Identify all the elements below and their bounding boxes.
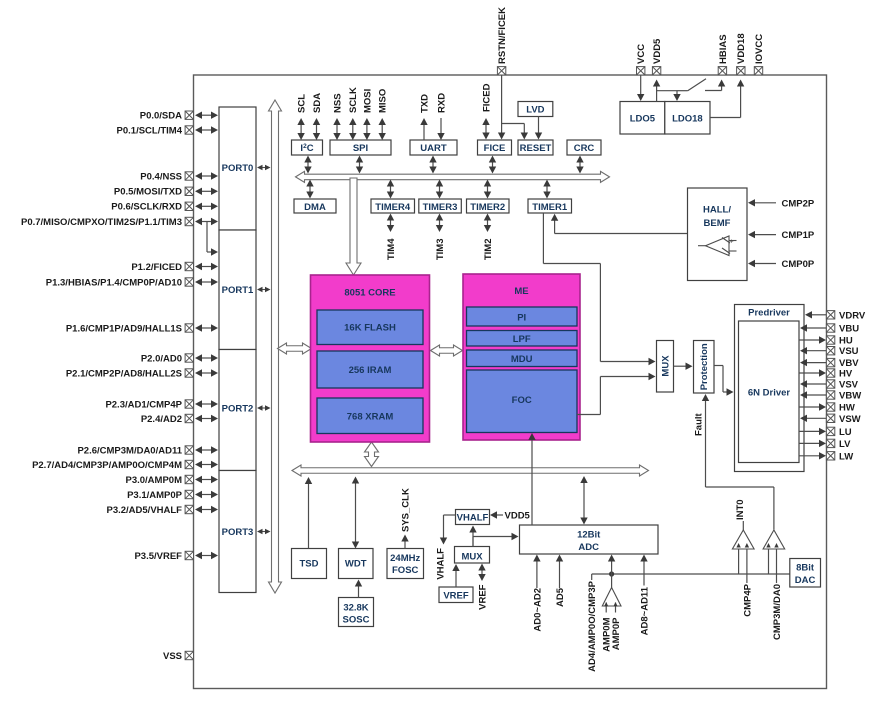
wire LDO5 to VDD5	[656, 85, 658, 101]
svg-text:HW: HW	[839, 403, 855, 414]
wire PORT0 to bus	[261, 167, 266, 169]
block RESET	[518, 140, 553, 155]
signal TIM3	[439, 219, 441, 226]
svg-text:PORT1: PORT1	[222, 285, 254, 296]
block Predriver	[735, 305, 805, 472]
comparator Fault (CMP3M)	[763, 530, 785, 549]
svg-text:P0.1/SCL/TIM4: P0.1/SCL/TIM4	[117, 125, 183, 136]
signal SYS_CLK	[404, 540, 406, 548]
vertical port bus	[269, 100, 282, 593]
svg-text:MDU: MDU	[511, 354, 533, 365]
signal VREF pin	[481, 569, 483, 575]
signal CMP1P	[754, 234, 776, 236]
pin VSU	[826, 347, 834, 355]
block 8Bit DAC	[790, 559, 821, 588]
svg-text:SYS_CLK: SYS_CLK	[400, 488, 411, 532]
svg-text:TIM2: TIM2	[483, 239, 494, 261]
svg-text:768 XRAM: 768 XRAM	[347, 412, 394, 423]
signal VDD5 to VHALF	[496, 514, 503, 516]
wire bus to TIMER2	[487, 185, 489, 193]
svg-text:I2C: I2C	[300, 143, 313, 154]
svg-text:PORT2: PORT2	[222, 404, 254, 415]
svg-text:8051 CORE: 8051 CORE	[344, 288, 395, 299]
block HALL/BEMF	[688, 188, 748, 281]
svg-text:LU: LU	[839, 427, 852, 438]
svg-text:16K FLASH: 16K FLASH	[344, 323, 396, 334]
svg-text:HBIAS: HBIAS	[718, 34, 729, 64]
block ME	[463, 274, 580, 440]
svg-text:MISO: MISO	[378, 89, 389, 113]
svg-text:LV: LV	[839, 439, 851, 450]
svg-text:AMP0P: AMP0P	[611, 617, 622, 650]
svg-text:+: +	[729, 239, 733, 246]
bus to 8051 core top arrow	[346, 178, 361, 275]
svg-text:12Bit: 12Bit	[577, 530, 601, 541]
svg-text:RXD: RXD	[436, 93, 447, 113]
signal Fault	[705, 400, 707, 487]
svg-text:CMP1P: CMP1P	[782, 230, 815, 241]
svg-text:AD8~AD11: AD8~AD11	[639, 586, 650, 635]
block 16K FLASH	[317, 310, 423, 345]
svg-text:VSS: VSS	[163, 651, 182, 662]
wire RSTN to RESET	[502, 123, 525, 125]
wire MUX to VHALF	[472, 531, 474, 546]
svg-text:P0.0/SDA: P0.0/SDA	[140, 111, 182, 122]
svg-text:TIMER1: TIMER1	[532, 202, 568, 213]
comparator symbol in HALL/BEMF	[698, 236, 737, 256]
svg-text:CMP0P: CMP0P	[782, 259, 815, 270]
svg-text:TIM3: TIM3	[435, 239, 446, 261]
pin LV	[826, 439, 834, 447]
svg-text:PI: PI	[517, 313, 526, 324]
svg-text:P2.3/AD1/CMP4P: P2.3/AD1/CMP4P	[105, 399, 182, 410]
svg-text:P2.1/CMP2P/AD8/HALL2S: P2.1/CMP2P/AD8/HALL2S	[66, 368, 182, 379]
svg-text:TIMER4: TIMER4	[375, 202, 411, 213]
wire bus to TIMER3	[439, 185, 441, 193]
svg-text:Fault: Fault	[694, 412, 705, 436]
svg-text:MUX: MUX	[661, 355, 672, 377]
svg-text:VBV: VBV	[839, 358, 859, 369]
svg-text:IOVCC: IOVCC	[754, 34, 765, 64]
svg-text:P2.4/AD2: P2.4/AD2	[141, 414, 182, 425]
svg-text:256 IRAM: 256 IRAM	[349, 365, 392, 376]
comparator INT0 (CMP4P)	[732, 530, 754, 549]
8051 core to ME arrow	[431, 345, 463, 356]
wire VDD5 branch to LDO18	[657, 90, 677, 92]
svg-text:SOSC: SOSC	[343, 615, 370, 626]
svg-text:Protection: Protection	[699, 343, 710, 390]
svg-text:HV: HV	[839, 369, 853, 380]
block 24MHz FOSC	[387, 549, 424, 579]
block FOC	[467, 370, 578, 433]
svg-text:P3.2/AD5/VHALF: P3.2/AD5/VHALF	[107, 505, 183, 516]
wire TIMER1 to MUX	[542, 213, 544, 264]
pin HU	[826, 336, 834, 344]
svg-text:P3.5/VREF: P3.5/VREF	[134, 551, 182, 562]
svg-text:HU: HU	[839, 336, 853, 347]
pin VBV	[826, 358, 834, 366]
svg-text:RSTN/FICEK: RSTN/FICEK	[497, 7, 508, 64]
bus to 8051 core arrow	[278, 343, 312, 354]
wire LDO18 to VDD18	[710, 117, 741, 119]
block MDU	[467, 350, 578, 367]
svg-text:TSD: TSD	[300, 559, 319, 570]
signal TIM2	[487, 219, 489, 226]
svg-text:VCC: VCC	[636, 44, 647, 64]
pin VDRV	[826, 311, 834, 319]
svg-text:P0.6/SCLK/RXD: P0.6/SCLK/RXD	[111, 202, 182, 213]
svg-text:CMP3M/DA0: CMP3M/DA0	[772, 584, 783, 640]
svg-text:VHALF: VHALF	[436, 548, 447, 580]
pin VBW	[826, 391, 834, 399]
svg-text:AD0~AD2: AD0~AD2	[532, 588, 543, 632]
svg-text:P2.7/AD4/CMP3P/AMP0O/CMP4M: P2.7/AD4/CMP3P/AMP0O/CMP4M	[32, 460, 182, 471]
chip boundary	[194, 75, 827, 689]
wire bus to ADC	[583, 482, 585, 519]
svg-text:VSU: VSU	[839, 346, 859, 357]
block DMA	[294, 199, 336, 213]
block LPF	[467, 331, 578, 347]
svg-text:P1.6/CMP1P/AD9/HALL1S: P1.6/CMP1P/AD9/HALL1S	[66, 323, 182, 334]
block TIMER1	[528, 199, 572, 213]
svg-text:P3.1/AMP0P: P3.1/AMP0P	[127, 490, 183, 501]
block 8051 CORE	[311, 275, 430, 442]
svg-text:CMP4P: CMP4P	[742, 583, 753, 616]
block I2C	[292, 140, 323, 155]
wire bus to DMA	[309, 185, 311, 193]
wire SPI to bus	[359, 161, 361, 168]
signal CMP2P	[754, 202, 776, 204]
wire bus to TIMER1	[546, 185, 548, 193]
block PORT1	[219, 230, 256, 350]
wire I2C to bus	[307, 161, 309, 168]
svg-text:MOSI: MOSI	[362, 89, 373, 113]
svg-text:VDD5: VDD5	[505, 510, 531, 521]
wire VHALF/MUX to ADC	[472, 537, 474, 547]
wire amp to ADC	[611, 560, 613, 574]
svg-text:ME: ME	[514, 286, 528, 297]
svg-text:P2.6/CMP3M/DA0/AD11: P2.6/CMP3M/DA0/AD11	[77, 445, 182, 456]
svg-text:CRC: CRC	[574, 143, 595, 154]
svg-text:P0.5/MOSI/TXD: P0.5/MOSI/TXD	[114, 187, 182, 198]
svg-text:ADC: ADC	[578, 542, 599, 553]
wire PORT3 to bus	[261, 531, 266, 533]
pin LW	[826, 452, 834, 460]
block LDO5	[620, 102, 665, 135]
block TIMER4	[371, 199, 415, 213]
svg-text:SCLK: SCLK	[348, 87, 359, 113]
8051 core to bottom bus arrow	[365, 442, 379, 467]
block PORT3	[219, 471, 256, 593]
svg-text:TXD: TXD	[419, 94, 430, 113]
block 32.8K SOSC	[339, 598, 374, 627]
wire LVD to RESET	[538, 117, 540, 134]
wire P0.7 to PORT1	[206, 222, 208, 252]
svg-text:P1.2/FICED: P1.2/FICED	[131, 262, 182, 273]
svg-text:SCL: SCL	[297, 94, 308, 113]
wire ADC to FOC	[531, 440, 533, 525]
signal AD5	[559, 560, 561, 588]
svg-text:TIM4: TIM4	[386, 238, 397, 260]
block LVD	[518, 102, 553, 117]
svg-text:UART: UART	[420, 143, 447, 154]
pin HV	[826, 369, 834, 377]
svg-text:INT0: INT0	[735, 499, 746, 520]
svg-text:VSW: VSW	[839, 414, 861, 425]
bottom peripheral bus	[292, 465, 649, 476]
pin VBU	[826, 324, 834, 332]
wire VREF to MUX	[455, 570, 457, 587]
signal AD0~AD2	[536, 560, 538, 588]
svg-text:TIMER2: TIMER2	[470, 202, 505, 213]
svg-text:LDO18: LDO18	[672, 114, 703, 125]
svg-text:VBW: VBW	[839, 391, 861, 402]
block TIMER3	[419, 199, 462, 213]
svg-text:LVD: LVD	[526, 105, 544, 116]
block MUX (analog)	[455, 547, 490, 564]
svg-text:HALL/: HALL/	[703, 205, 731, 216]
svg-text:VDRV: VDRV	[839, 310, 866, 321]
block 6N Driver	[739, 321, 800, 463]
block 768 XRAM	[317, 398, 423, 434]
block TIMER2	[467, 199, 510, 213]
svg-text:TIMER3: TIMER3	[423, 202, 458, 213]
svg-text:BEMF: BEMF	[704, 218, 731, 229]
pin VSV	[826, 380, 834, 388]
block TSD	[292, 549, 327, 579]
svg-text:FOSC: FOSC	[392, 565, 419, 576]
wire Protection to Predriver	[714, 365, 723, 367]
pin HW	[826, 403, 834, 411]
wire MUX to Protection	[674, 365, 687, 367]
net DAC/CMP3P line	[592, 573, 790, 575]
svg-text:DAC: DAC	[795, 575, 816, 586]
svg-text:FOC: FOC	[512, 395, 532, 406]
svg-text:LW: LW	[839, 451, 853, 462]
svg-text:RESET: RESET	[520, 143, 552, 154]
svg-text:WDT: WDT	[345, 559, 367, 570]
block MUX (drive)	[657, 341, 674, 393]
block 256 IRAM	[317, 351, 423, 388]
wire CRC to bus	[579, 161, 581, 168]
svg-text:NSS: NSS	[332, 93, 343, 113]
svg-text:FICE: FICE	[484, 143, 506, 154]
svg-text:FICED: FICED	[481, 83, 492, 112]
wire RSTN to FICE	[501, 75, 503, 134]
svg-text:VREF: VREF	[477, 584, 488, 610]
svg-text:AD4/AMP0O/CMP3P: AD4/AMP0O/CMP3P	[587, 580, 598, 671]
svg-text:PORT0: PORT0	[222, 163, 254, 174]
block PORT0	[219, 107, 256, 230]
svg-text:SPI: SPI	[353, 143, 368, 154]
svg-text:8Bit: 8Bit	[796, 563, 815, 574]
wire SOSC to WDT	[358, 585, 360, 597]
signal TIM4	[390, 219, 392, 226]
block 12Bit ADC	[520, 525, 659, 554]
svg-text:MUX: MUX	[461, 552, 483, 563]
svg-text:AD5: AD5	[555, 587, 566, 607]
svg-text:VSV: VSV	[839, 380, 859, 391]
svg-text:VBU: VBU	[839, 324, 859, 335]
wire comparator to Fault	[773, 487, 775, 530]
pin LU	[826, 427, 834, 435]
signal CMP0P	[754, 263, 776, 265]
svg-text:24MHz: 24MHz	[390, 553, 420, 564]
svg-text:LDO5: LDO5	[630, 114, 656, 125]
top peripheral bus	[296, 171, 610, 182]
wire WDT to bus	[355, 482, 357, 543]
svg-text:VDD18: VDD18	[736, 33, 747, 64]
wire PORT1 to bus	[261, 289, 266, 291]
wire UART to bus	[432, 161, 434, 168]
svg-text:VHALF: VHALF	[457, 512, 489, 523]
block VHALF	[456, 510, 490, 525]
svg-text:6N Driver: 6N Driver	[748, 388, 791, 399]
block WDT	[339, 549, 374, 579]
block SPI	[330, 140, 391, 155]
svg-text:LPF: LPF	[513, 334, 531, 345]
svg-text:CMP2P: CMP2P	[782, 198, 815, 209]
svg-text:DMA: DMA	[304, 202, 326, 213]
svg-text:P3.0/AMP0M: P3.0/AMP0M	[126, 475, 183, 486]
block CRC	[567, 140, 601, 155]
wire PORT2 to bus	[261, 407, 266, 409]
wire bus to TIMER4	[390, 185, 392, 193]
svg-text:VDD5: VDD5	[652, 38, 663, 64]
block UART	[410, 140, 457, 155]
block PORT2	[219, 350, 256, 471]
svg-text:Predriver: Predriver	[748, 308, 790, 319]
svg-text:P0.7/MISO/CMPXO/TIM2S/P1.1/TIM: P0.7/MISO/CMPXO/TIM2S/P1.1/TIM3	[21, 217, 182, 228]
block PI	[467, 307, 578, 326]
wire VCC to LDO5	[640, 75, 642, 95]
svg-text:PORT3: PORT3	[222, 527, 254, 538]
svg-text:SDA: SDA	[312, 93, 323, 113]
block FICE	[478, 140, 512, 155]
svg-text:VREF: VREF	[443, 591, 469, 602]
svg-text:P0.4/NSS: P0.4/NSS	[140, 171, 182, 182]
op-amp AMP0	[611, 574, 613, 588]
wire HALL/BEMF to TIMER1	[555, 233, 688, 235]
block LDO18	[665, 102, 710, 135]
svg-text:32.8K: 32.8K	[343, 603, 368, 614]
signal VHALF out	[444, 514, 456, 516]
wire TSD to bus	[308, 483, 310, 549]
svg-text:P1.3/HBIAS/P1.4/CMP0P/AD10: P1.3/HBIAS/P1.4/CMP0P/AD10	[46, 277, 182, 288]
wire FOC to MUX	[577, 414, 600, 416]
block Protection	[694, 341, 715, 394]
signal AD8~AD11	[643, 560, 645, 585]
pin VSW	[826, 414, 834, 422]
wire FICE to bus	[492, 161, 494, 168]
switch to HBIAS	[677, 90, 688, 92]
svg-text:P2.0/AD0: P2.0/AD0	[141, 353, 182, 364]
block VREF	[439, 587, 473, 603]
junction dot	[609, 571, 614, 576]
